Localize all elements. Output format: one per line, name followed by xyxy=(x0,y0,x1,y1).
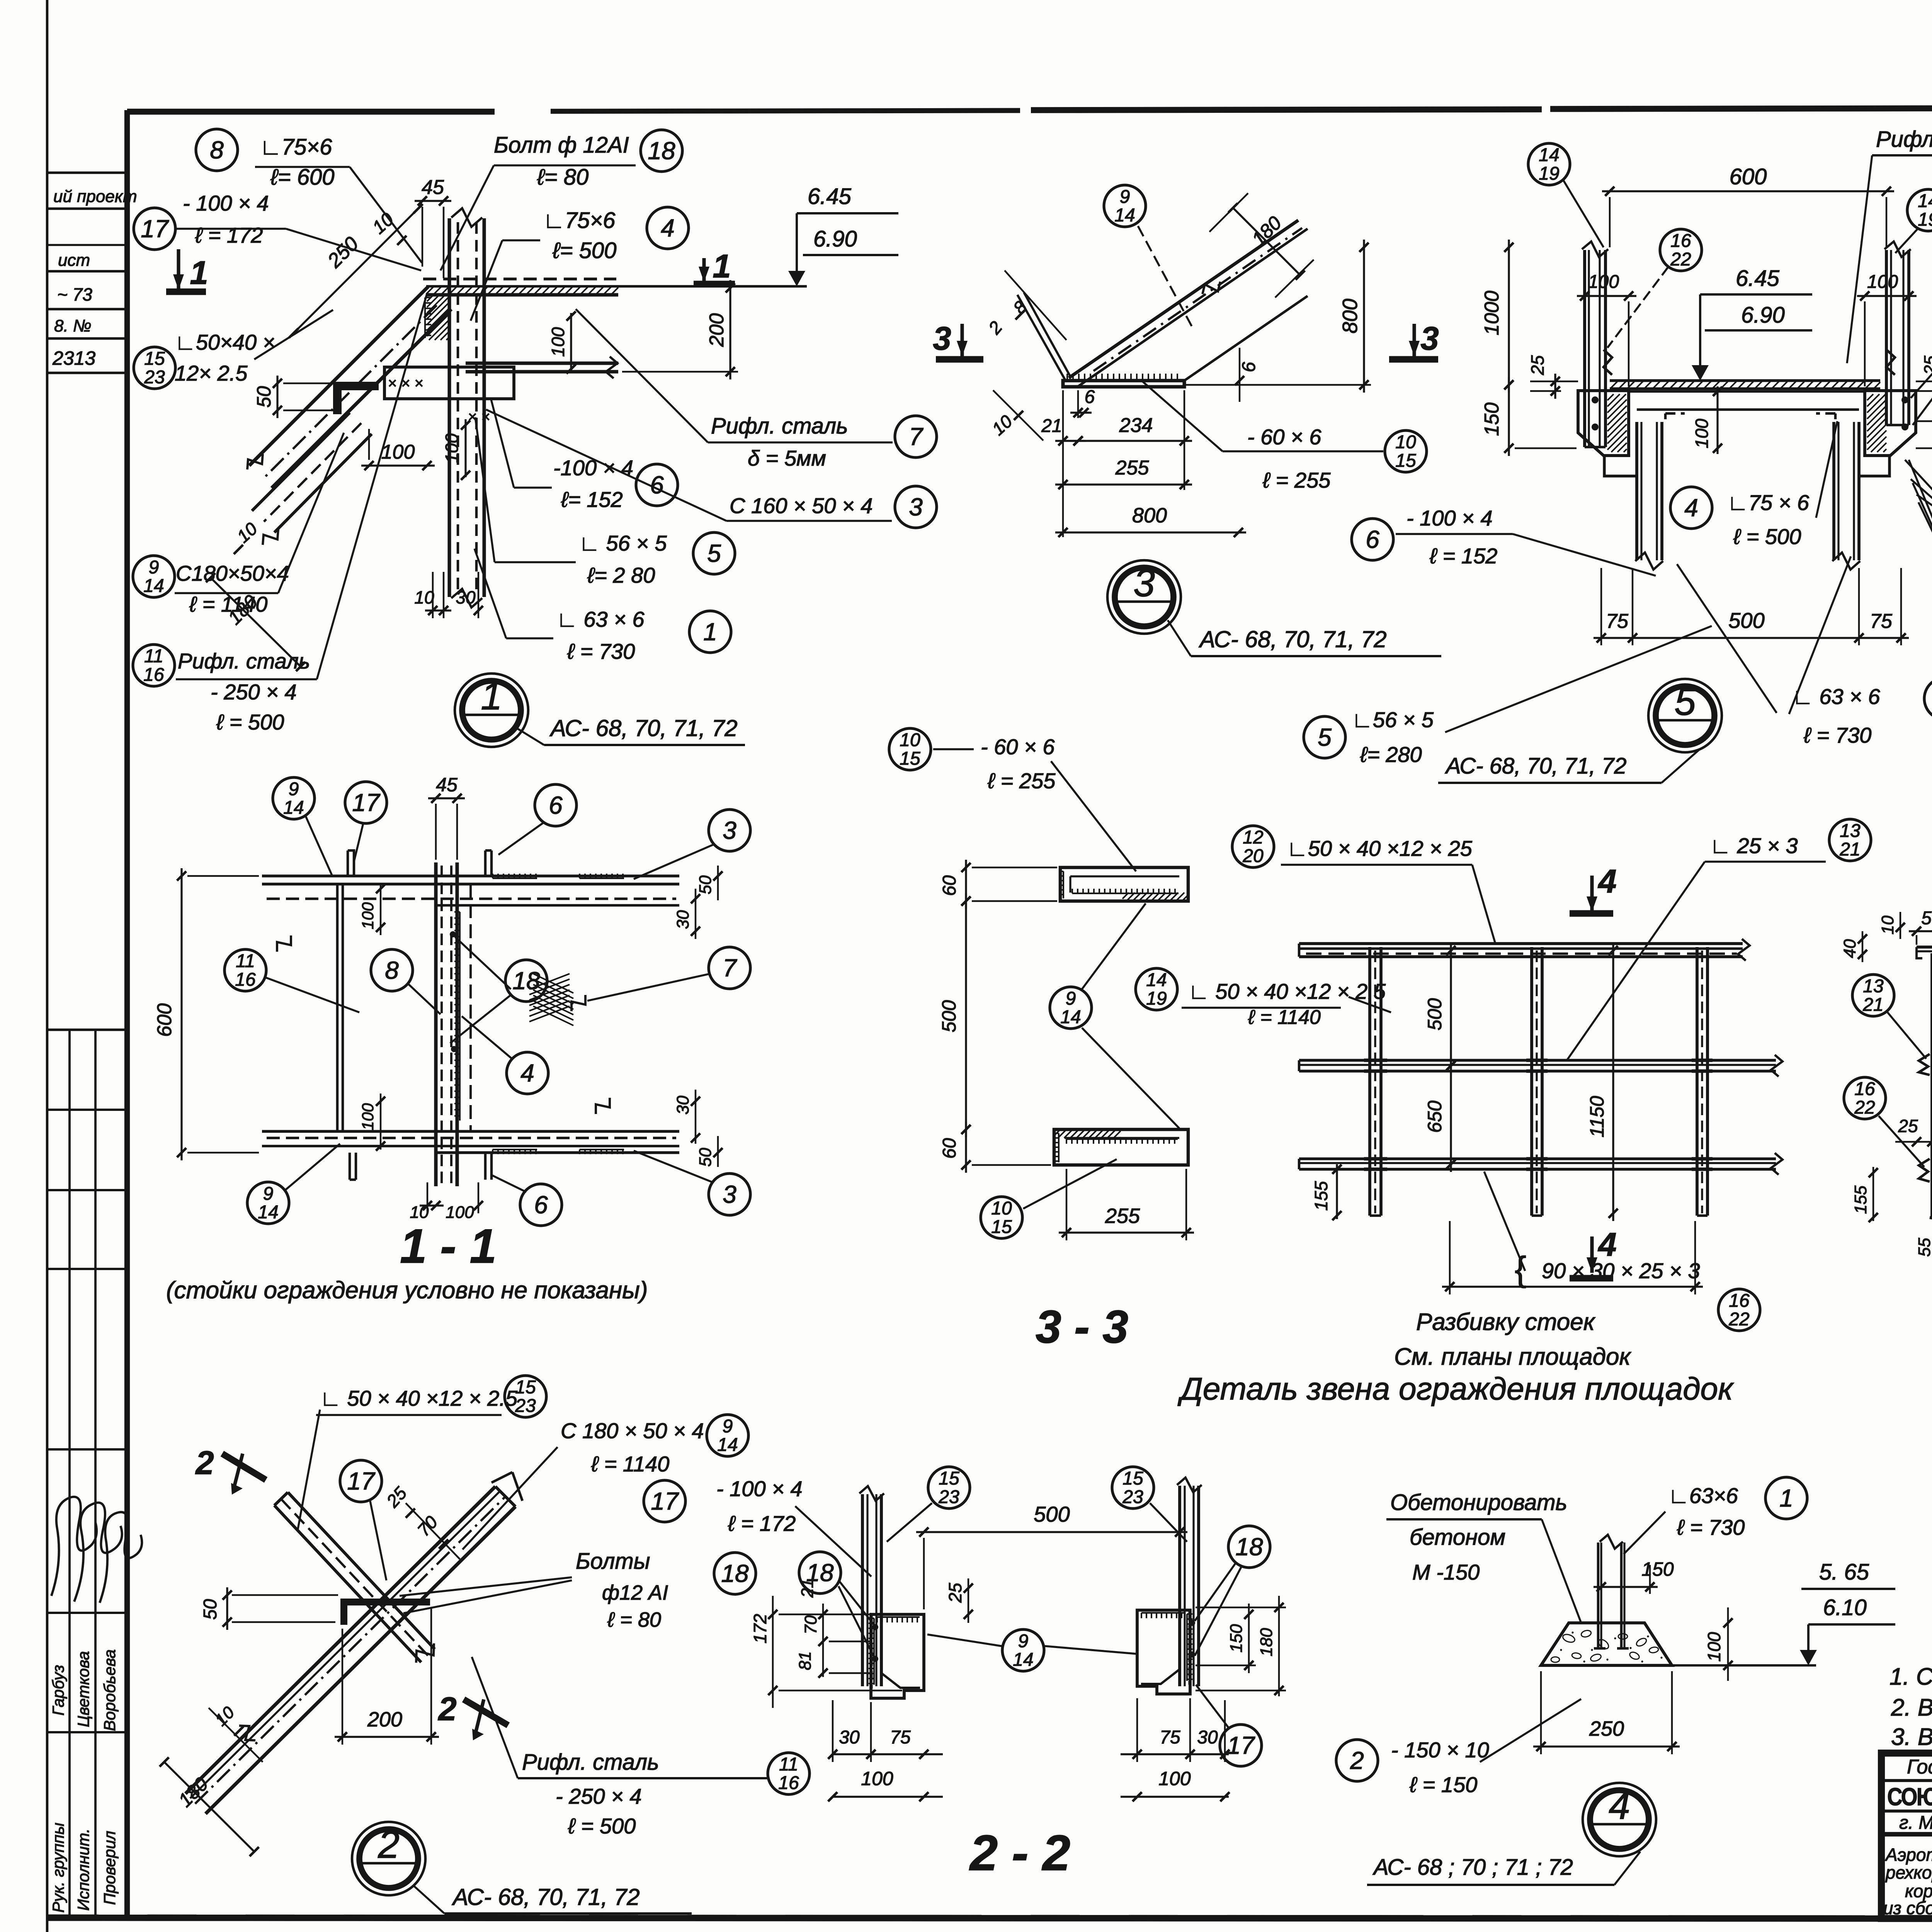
s22 right channel post xyxy=(1178,1486,1181,1686)
svg-text:Проверил: Проверил xyxy=(100,1831,119,1905)
svg-text:12× 2.5: 12× 2.5 xyxy=(175,361,248,385)
svg-text:ℓ= 152: ℓ= 152 xyxy=(561,487,623,512)
svg-text:16: 16 xyxy=(143,665,164,685)
svg-text:Рук. группы: Рук. группы xyxy=(49,1823,67,1913)
stamp row line a xyxy=(47,172,127,174)
svg-text:Воробьева: Воробьева xyxy=(100,1649,119,1731)
balloon 10-15 s33 bottom xyxy=(981,1197,1022,1238)
svg-text:500: 500 xyxy=(1424,998,1446,1031)
svg-text:6: 6 xyxy=(1085,387,1095,407)
fig5 right weld zig xyxy=(1886,350,1895,375)
svg-text:С 180 × 50 × 4: С 180 × 50 × 4 xyxy=(561,1418,704,1443)
grid section mark 4 top xyxy=(1590,876,1594,912)
svg-text:4: 4 xyxy=(1597,1226,1616,1263)
svg-text:Болт ф 12АI: Болт ф 12АI xyxy=(494,133,629,158)
balloon 2 s22 xyxy=(1336,1740,1378,1781)
svg-text:АС- 68, 70, 71, 72: АС- 68, 70, 71, 72 xyxy=(452,1884,640,1910)
fig1 stringer lower piece xyxy=(252,413,350,511)
svg-text:5: 5 xyxy=(1674,680,1696,723)
s22 right cup xyxy=(1137,1610,1190,1694)
svg-text:150: 150 xyxy=(1481,403,1503,436)
svg-text:9: 9 xyxy=(1120,187,1130,207)
svg-text:6: 6 xyxy=(650,471,664,499)
svg-text:∟56 × 5: ∟56 × 5 xyxy=(1352,707,1434,732)
fig5 left hanger channel xyxy=(1583,250,1586,447)
svg-text:Исполнит.: Исполнит. xyxy=(74,1828,92,1911)
grid top rail xyxy=(1299,942,1743,945)
balloon 9-14 s33 xyxy=(1050,987,1092,1029)
svg-text:50: 50 xyxy=(1921,908,1932,929)
svg-text:ℓ = 150: ℓ = 150 xyxy=(1409,1772,1477,1797)
balloon 5 fig3 xyxy=(1304,716,1345,758)
svg-text:17: 17 xyxy=(347,1467,376,1495)
svg-text:из сборного железобетона: из сборного железобетона xyxy=(1883,1898,1932,1918)
svg-text:- 150 × 10: - 150 × 10 xyxy=(1391,1738,1489,1762)
fig4 dim 150 xyxy=(1594,1586,1658,1588)
svg-text:Гарбуз: Гарбуз xyxy=(49,1665,67,1716)
balloon 9-14 fig3 xyxy=(1104,185,1146,227)
svg-text:1: 1 xyxy=(703,618,717,646)
balloon 17 s22 right xyxy=(1220,1725,1262,1766)
svg-text:- 60 × 6: - 60 × 6 xyxy=(981,735,1055,759)
stamp table row line 1 xyxy=(47,1109,127,1111)
svg-text:30: 30 xyxy=(673,910,692,929)
fig1 post right flange xyxy=(482,218,486,597)
svg-text:рехкоридорные с размерами: рехкоридорные с размерами xyxy=(1885,1862,1932,1883)
svg-text:90 × 30 × 25 × 3: 90 × 30 × 25 × 3 xyxy=(1542,1259,1700,1283)
svg-text:18: 18 xyxy=(648,137,675,165)
fig2 cross member xyxy=(288,1492,435,1649)
svg-text:9: 9 xyxy=(1018,1631,1029,1651)
svg-text:ℓ= 500: ℓ= 500 xyxy=(552,238,617,263)
balloon 9-14 fig2 xyxy=(707,1415,748,1456)
fig1 angle bracket thick xyxy=(333,382,379,414)
svg-text:ист: ист xyxy=(58,251,90,270)
svg-text:Обетонировать: Обетонировать xyxy=(1390,1490,1567,1515)
balloon 18 s22 right xyxy=(1228,1526,1270,1568)
section circle 2 xyxy=(352,1822,425,1895)
svg-text:- 250 × 4: - 250 × 4 xyxy=(211,680,297,704)
fig1 dim 50 xyxy=(276,376,278,418)
svg-text:∟ 50 × 40 ×12 × 2.5: ∟ 50 × 40 ×12 × 2.5 xyxy=(320,1386,518,1410)
svg-text:4: 4 xyxy=(1609,1784,1630,1827)
balloon 9-14 fig1 xyxy=(133,556,175,597)
svg-text:10: 10 xyxy=(991,1198,1012,1219)
svg-text:23: 23 xyxy=(144,367,165,388)
fig3 thin diagonal plate xyxy=(1017,295,1065,379)
svg-text:ℓ = 1140: ℓ = 1140 xyxy=(189,592,267,616)
balloon 5 fig1 xyxy=(693,532,735,574)
fig3 section mark 3 right xyxy=(1412,324,1416,356)
svg-text:С180×50×4: С180×50×4 xyxy=(176,561,289,585)
svg-text:20: 20 xyxy=(1242,846,1264,866)
fig1 stringer top chord xyxy=(249,287,428,466)
svg-text:∟75×6: ∟75×6 xyxy=(260,134,332,160)
svg-text:100: 100 xyxy=(1704,1632,1724,1662)
section circle 4 xyxy=(1583,1783,1656,1856)
grid section mark 4 bottom xyxy=(1590,1236,1594,1273)
svg-text:30: 30 xyxy=(1197,1727,1218,1748)
svg-text:14: 14 xyxy=(717,1435,738,1455)
fig1 stringer break marks xyxy=(247,454,263,469)
fig5 dim 1000 left xyxy=(1508,240,1510,393)
s11 top rail dashed xyxy=(267,898,676,900)
svg-text:25: 25 xyxy=(945,1583,965,1603)
svg-text:АС- 68, 70, 71, 72: АС- 68, 70, 71, 72 xyxy=(549,715,738,741)
fig5 dim 600 xyxy=(1602,190,1894,192)
svg-text:ℓ = 500: ℓ = 500 xyxy=(216,710,284,734)
s33 dim 500 xyxy=(965,893,967,1137)
grid mid rail xyxy=(1299,1059,1776,1061)
grid rail left ends xyxy=(1298,944,1301,957)
s11 right post stub top xyxy=(484,850,487,877)
svg-text:100: 100 xyxy=(446,1203,474,1222)
balloon 7 s11 xyxy=(709,947,750,989)
s11 dim 10 100 bottom xyxy=(420,1204,444,1206)
svg-text:15: 15 xyxy=(144,349,165,369)
svg-text:δ = 5мм: δ = 5мм xyxy=(748,446,826,470)
balloon 1 fig1 xyxy=(689,611,731,653)
svg-text:ℓ = 500: ℓ = 500 xyxy=(568,1814,636,1838)
svg-text:ℓ = 500: ℓ = 500 xyxy=(1733,524,1801,549)
balloon 8 xyxy=(196,129,238,171)
fig2 break bottom xyxy=(239,1726,255,1740)
balloon 13-21 s44 xyxy=(1852,975,1894,1016)
s44 post xyxy=(1930,953,1932,1218)
s11 top rail xyxy=(262,874,679,877)
fig3 dim 800 v xyxy=(1363,240,1365,393)
s33 upper channel weld xyxy=(1063,871,1064,898)
balloon 16-22 grid xyxy=(1718,1289,1760,1331)
fig4 post xyxy=(1597,1543,1600,1648)
svg-text:ℓ = 730: ℓ = 730 xyxy=(567,639,635,663)
svg-text:172: 172 xyxy=(750,1614,770,1644)
stamp table row line 5 xyxy=(47,1612,127,1614)
svg-text:1: 1 xyxy=(713,248,731,285)
svg-text:ф12 АI: ф12 АI xyxy=(602,1581,668,1604)
svg-text:× × ×: × × × xyxy=(388,375,423,392)
svg-text:∟50 × 40 ×12 × 25: ∟50 × 40 ×12 × 25 xyxy=(1287,836,1473,861)
svg-text:100: 100 xyxy=(861,1768,893,1789)
svg-text:45: 45 xyxy=(436,774,457,796)
svg-text:2: 2 xyxy=(378,1823,400,1866)
svg-text:6: 6 xyxy=(549,791,563,819)
s33 dim 60 top xyxy=(965,860,967,909)
sheet frame top border seg4 xyxy=(1550,108,1932,109)
fig1 hidden beam dashed xyxy=(423,277,616,280)
svg-text:16: 16 xyxy=(1854,1079,1875,1099)
balloon 11-16 fig1 xyxy=(133,645,175,686)
svg-text:13: 13 xyxy=(1863,976,1884,997)
svg-text:50: 50 xyxy=(696,875,715,894)
stamp row line c xyxy=(47,244,127,246)
tb line under moskva xyxy=(1881,1832,1932,1837)
balloon 17 fig2 right xyxy=(644,1480,685,1522)
balloon 16-22 fig5 xyxy=(1660,229,1702,271)
fig1 section mark 3 left xyxy=(960,324,964,356)
svg-text:100: 100 xyxy=(1692,418,1712,448)
svg-text:23: 23 xyxy=(1122,1487,1143,1507)
svg-text:ℓ = 152: ℓ = 152 xyxy=(1429,544,1497,568)
svg-text:Болты: Болты xyxy=(576,1549,650,1574)
fig1 seat plate xyxy=(384,367,514,399)
section circle 5 xyxy=(1648,679,1722,752)
fig1 dim 10 30 bottom xyxy=(425,609,451,611)
balloon 1 fig5 xyxy=(1924,678,1932,719)
svg-text:19: 19 xyxy=(1539,163,1559,184)
fig4 concrete specks xyxy=(1562,1633,1576,1644)
svg-text:22: 22 xyxy=(1670,249,1691,270)
svg-text:15: 15 xyxy=(1122,1468,1143,1489)
svg-text:23: 23 xyxy=(938,1487,959,1507)
svg-text:16: 16 xyxy=(235,969,256,990)
balloon 8 s11 xyxy=(371,949,413,991)
fig1 dim 100 h xyxy=(361,464,435,466)
fig5 left post xyxy=(1635,422,1638,560)
fig1 post top break xyxy=(451,208,482,227)
svg-text:15: 15 xyxy=(515,1377,536,1398)
svg-text:Цветкова: Цветкова xyxy=(74,1651,92,1727)
svg-text:100: 100 xyxy=(1588,272,1619,292)
grid bottom dim xyxy=(1442,1286,1703,1287)
balloon 18 fig1 xyxy=(641,130,682,172)
s22 dim 500 xyxy=(916,1531,1187,1533)
svg-text:12: 12 xyxy=(1243,827,1263,848)
fig1 gusset hatch xyxy=(427,296,433,301)
balloon 3 fig1 xyxy=(895,486,937,528)
stamp table col line 1 xyxy=(68,1030,71,1918)
stamp row line e xyxy=(47,337,127,340)
svg-text:150: 150 xyxy=(1227,1624,1246,1653)
s11 middle channel xyxy=(434,862,437,1186)
svg-text:1: 1 xyxy=(1779,1484,1793,1512)
fig1 stringer dash center xyxy=(263,305,437,479)
fig4 ground line xyxy=(1672,1664,1816,1667)
balloon 9-14 s22 xyxy=(1002,1629,1044,1671)
svg-text:11: 11 xyxy=(144,646,163,667)
svg-text:17: 17 xyxy=(651,1487,679,1515)
balloon 11-16 s11 xyxy=(224,949,266,991)
tb soyuz box xyxy=(1881,1779,1932,1782)
svg-text:30: 30 xyxy=(839,1727,860,1748)
svg-text:- 100 × 4: - 100 × 4 xyxy=(716,1476,803,1501)
fig1 lower stringer dash xyxy=(264,423,361,522)
svg-text:50: 50 xyxy=(253,386,275,408)
sheet frame top border seg3 xyxy=(1031,109,1542,110)
stamp row line b xyxy=(47,207,127,210)
balloon 6 s11 top xyxy=(535,784,577,826)
svg-text:9: 9 xyxy=(263,1184,274,1204)
balloon 14-19 fig5 right xyxy=(1907,189,1932,231)
svg-text:АС- 68, 70, 71, 72: АС- 68, 70, 71, 72 xyxy=(1199,626,1387,652)
s11 bottom rail dashed xyxy=(267,1137,676,1139)
svg-text:Рифл. сталь: Рифл. сталь xyxy=(522,1750,659,1775)
svg-text:4: 4 xyxy=(661,214,675,242)
svg-text:ℓ = 255: ℓ = 255 xyxy=(987,769,1056,793)
fig1 post inner dashed xyxy=(457,222,459,595)
svg-text:17: 17 xyxy=(1227,1731,1255,1759)
fig5 left bracket bolts xyxy=(1592,396,1599,403)
fig2 dim 200 xyxy=(335,1736,439,1738)
svg-text:Деталь звена ограждения пло: Деталь звена ограждения площадок xyxy=(1177,1371,1734,1406)
balloon 10-15 s33 top xyxy=(889,728,931,770)
svg-text:8: 8 xyxy=(385,956,399,984)
fig1 beam bottom flange xyxy=(466,361,618,365)
fig3 weld comb top xyxy=(1067,379,1182,381)
svg-text:100: 100 xyxy=(442,433,462,463)
svg-text:ℓ = 730: ℓ = 730 xyxy=(1803,723,1871,747)
fig1 section mark 1 right xyxy=(702,258,706,282)
svg-text:14: 14 xyxy=(1918,191,1932,211)
svg-text:14: 14 xyxy=(1146,970,1167,990)
signature squiggle 3 xyxy=(100,1512,142,1603)
svg-text:155: 155 xyxy=(1851,1185,1870,1214)
balloon 1 fig4 xyxy=(1765,1477,1807,1519)
svg-text:5: 5 xyxy=(1318,723,1332,751)
signature squiggle 2 xyxy=(74,1503,122,1602)
svg-text:25: 25 xyxy=(1527,355,1548,376)
svg-text:19: 19 xyxy=(1918,209,1932,230)
svg-text:3: 3 xyxy=(1133,561,1155,605)
svg-text:18: 18 xyxy=(721,1560,749,1587)
stamp table row line 3 xyxy=(47,1268,127,1270)
svg-text:∟ 63 × 6: ∟ 63 × 6 xyxy=(1792,684,1880,709)
balloon 4 fig5 xyxy=(1670,487,1712,529)
s11 crosshatch patch xyxy=(529,974,570,989)
balloon 18 fig2 xyxy=(714,1553,756,1594)
svg-text:- 100 × 4: - 100 × 4 xyxy=(1406,506,1493,530)
svg-text:10: 10 xyxy=(414,587,434,607)
svg-text:Рифл. сталь: Рифл. сталь xyxy=(1876,127,1932,152)
svg-text:6.10: 6.10 xyxy=(1823,1595,1867,1620)
svg-text:∟ 56 × 5: ∟ 56 × 5 xyxy=(579,531,667,555)
svg-text:500: 500 xyxy=(1034,1502,1070,1526)
s22 left cup xyxy=(871,1614,924,1698)
balloon 16-22 s44 xyxy=(1844,1077,1886,1119)
svg-text:650: 650 xyxy=(1424,1100,1446,1133)
svg-text:3: 3 xyxy=(723,1180,736,1208)
stamp row line d xyxy=(47,308,127,311)
svg-text:6.90: 6.90 xyxy=(1741,303,1785,328)
svg-text:3 - 3: 3 - 3 xyxy=(1036,1301,1128,1353)
svg-text:100: 100 xyxy=(359,902,377,929)
svg-text:150: 150 xyxy=(1641,1558,1674,1580)
svg-text:22: 22 xyxy=(1854,1097,1875,1118)
svg-text:14: 14 xyxy=(1060,1007,1081,1027)
s11 top weld combs xyxy=(493,878,537,879)
svg-text:200: 200 xyxy=(706,313,728,347)
s11 break marks xyxy=(277,935,291,952)
balloon 6 fig3 xyxy=(1352,519,1393,560)
s11 left post stub bottom xyxy=(349,1153,351,1180)
svg-text:100: 100 xyxy=(1867,272,1898,292)
balloon 3 s11 top xyxy=(709,810,750,851)
balloon 9-14 s11 bottom xyxy=(247,1182,289,1224)
svg-text:7: 7 xyxy=(909,423,923,451)
s44 top cap xyxy=(1917,946,1932,949)
balloon 15-23 s22 right xyxy=(1112,1467,1154,1509)
svg-text:2. Все дыры d = 15 мм.: 2. Все дыры d = 15 мм. xyxy=(1891,1694,1932,1721)
svg-text:25: 25 xyxy=(1898,1116,1918,1136)
svg-text:19: 19 xyxy=(1146,988,1167,1009)
svg-text:18: 18 xyxy=(806,1559,834,1587)
stamp table row line 4 xyxy=(47,1448,127,1451)
svg-text:14: 14 xyxy=(1539,145,1559,165)
fig5 right step xyxy=(1859,456,1889,489)
fig1 dim 180 xyxy=(211,578,301,667)
fig5 left bracket xyxy=(1578,391,1629,456)
balloon 14-19 fig5 left xyxy=(1528,143,1570,185)
sheet frame top border seg2 xyxy=(551,111,1020,111)
fig1 section mark 1 left xyxy=(177,249,180,290)
svg-text:3: 3 xyxy=(1420,320,1439,357)
fig1 floor plate xyxy=(426,285,807,288)
svg-text:75: 75 xyxy=(890,1727,911,1748)
svg-text:14: 14 xyxy=(258,1202,278,1223)
svg-text:Рифл. сталь: Рифл. сталь xyxy=(178,649,310,673)
s11 bottom rail xyxy=(262,1130,679,1133)
s22 left bolts xyxy=(872,1624,878,1630)
svg-text:3: 3 xyxy=(933,320,951,357)
fig1 post bottom break xyxy=(451,589,482,607)
svg-text:21: 21 xyxy=(1862,995,1883,1015)
balloon 17 s11 xyxy=(345,782,387,823)
svg-text:18: 18 xyxy=(1235,1533,1263,1561)
svg-text:100: 100 xyxy=(1158,1768,1191,1789)
svg-text:АС- 68 ; 70 ; 71 ; 72: АС- 68 ; 70 ; 71 ; 72 xyxy=(1372,1855,1573,1880)
svg-text:1 - 1: 1 - 1 xyxy=(400,1219,497,1273)
svg-text:См. планы площадок: См. планы площадок xyxy=(1394,1344,1632,1370)
svg-text:∟75 × 6: ∟75 × 6 xyxy=(1727,490,1810,515)
svg-text:10: 10 xyxy=(1395,432,1416,452)
svg-text:14: 14 xyxy=(143,576,164,596)
s33 lower channel weld xyxy=(1058,1133,1060,1162)
svg-text:9: 9 xyxy=(289,779,299,799)
fig2 dim 50 xyxy=(226,1587,228,1630)
fig1 dim 45 xyxy=(415,200,451,202)
svg-text:2: 2 xyxy=(195,1445,214,1481)
fig2 stringer inner line xyxy=(190,1491,500,1798)
s33 dim 60 bottom xyxy=(965,1122,967,1173)
svg-text:600: 600 xyxy=(1730,164,1767,189)
svg-text:СОЮЗВОДОКАНАЛПРОЕКТ: СОЮЗВОДОКАНАЛПРОЕКТ xyxy=(1887,1783,1932,1811)
svg-text:50: 50 xyxy=(696,1148,715,1167)
fig1 dim 200 xyxy=(729,280,731,379)
balloon 7 fig1 xyxy=(895,416,937,457)
svg-text:6: 6 xyxy=(534,1191,548,1219)
fig5 dim 100 right xyxy=(1857,295,1917,297)
balloon 3 s11 bottom xyxy=(709,1173,750,1215)
svg-text:∟50×40 ×: ∟50×40 × xyxy=(175,330,275,354)
svg-text:18: 18 xyxy=(512,967,540,995)
s11 left post lines xyxy=(336,884,339,1131)
balloon 4 fig1 xyxy=(647,207,689,249)
svg-text:180: 180 xyxy=(1257,1628,1276,1656)
fig5 right post xyxy=(1832,422,1835,560)
grid post 2 xyxy=(1530,947,1533,1216)
svg-text:С 160 × 50 × 4: С 160 × 50 × 4 xyxy=(730,493,873,518)
svg-text:- 250 × 4: - 250 × 4 xyxy=(556,1784,642,1808)
svg-text:81: 81 xyxy=(796,1651,815,1670)
svg-text:25: 25 xyxy=(1921,355,1932,375)
svg-text:800: 800 xyxy=(1132,504,1167,527)
svg-text:6: 6 xyxy=(1239,362,1259,372)
fig3 base plate xyxy=(1063,381,1184,387)
svg-text:800: 800 xyxy=(1338,299,1362,333)
svg-text:8: 8 xyxy=(210,136,224,164)
svg-text:75: 75 xyxy=(1606,610,1629,633)
svg-text:11: 11 xyxy=(779,1754,798,1775)
